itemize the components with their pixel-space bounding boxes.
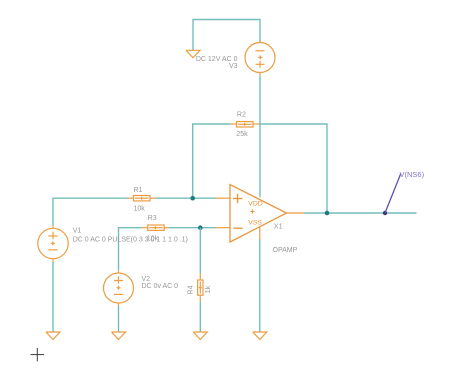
svg-text:OPAMP: OPAMP: [273, 247, 298, 254]
svg-text:V1: V1: [73, 228, 82, 235]
resistor R1: [127, 196, 156, 201]
svg-text:DC 0v AC 0: DC 0v AC 0: [142, 283, 179, 290]
op-amp U1 triangle: [230, 185, 287, 243]
svg-text:10k: 10k: [134, 205, 146, 212]
ground GND4 under R4: [193, 332, 207, 340]
wire from R3 to minus input: [169, 227, 216, 229]
resistor R4 (vertical): [198, 274, 203, 302]
junction dot at plus input / feedback node: [190, 196, 195, 201]
op-amp plus input pin: [216, 197, 231, 199]
op-amp minus input pin: [216, 227, 231, 229]
probe line: [385, 174, 401, 214]
wire from R1 to plus input: [156, 197, 216, 199]
voltage source V3: [245, 41, 275, 76]
svg-text:DC 0 AC 0 PULSE(0 3 3 0 1 1 1: DC 0 AC 0 PULSE(0 3 3 0 1 1 1 0 .1): [73, 237, 188, 244]
ground GND1 (top): [186, 50, 200, 58]
wire from minus node down to R4: [199, 228, 201, 274]
op-amp output pin: [287, 212, 305, 214]
junction dot at minus input / R4 node: [198, 225, 203, 230]
probe dot on output: [383, 211, 387, 215]
svg-text:R1: R1: [134, 187, 143, 194]
svg-text:VSS: VSS: [248, 219, 262, 226]
wire from V1 up to R1 row: [53, 198, 127, 225]
ground GND5 under VSS: [253, 332, 267, 340]
svg-text:VDD: VDD: [248, 200, 262, 207]
svg-text:V2: V2: [142, 276, 151, 283]
op-amp VSS pin: [259, 227, 261, 239]
junction dot feedback/output: [325, 211, 330, 216]
wire from V1 down to ground: [52, 262, 54, 332]
resistor R2: [231, 122, 259, 127]
svg-text:R3: R3: [148, 215, 157, 222]
svg-text:1k: 1k: [205, 285, 212, 293]
svg-text:25k: 25k: [236, 131, 248, 138]
wire from R4 down to ground: [199, 302, 201, 333]
op-amp minus marker: [234, 227, 243, 229]
svg-text:V3: V3: [229, 63, 238, 70]
op-amp mid plus marker: [250, 209, 254, 213]
wire top loop from GND1 to V3 plus: [193, 20, 260, 51]
wire output net: [305, 212, 417, 214]
wire feedback loop top right and right vertical: [259, 124, 327, 213]
voltage source V2: [104, 270, 134, 306]
svg-text:X1: X1: [274, 222, 283, 231]
svg-text:R2: R2: [237, 112, 246, 119]
resistor R3: [142, 225, 169, 230]
ground GND3 under V2: [112, 332, 126, 340]
ground GND2 under V1: [46, 332, 60, 340]
op-amp plus marker: [233, 194, 242, 203]
wire VDD rail from V3 to op-amp: [259, 76, 261, 198]
wire from V2 down to ground: [118, 306, 120, 332]
svg-text:V(NS6): V(NS6): [400, 170, 425, 179]
origin crosshair marker: [31, 348, 45, 361]
wire from V2 up to R3 row: [119, 228, 142, 271]
wire feedback loop left vertical and top: [193, 124, 231, 198]
voltage source V1: [38, 226, 68, 262]
svg-text:R4: R4: [188, 285, 195, 294]
wire VSS to ground: [259, 239, 261, 332]
